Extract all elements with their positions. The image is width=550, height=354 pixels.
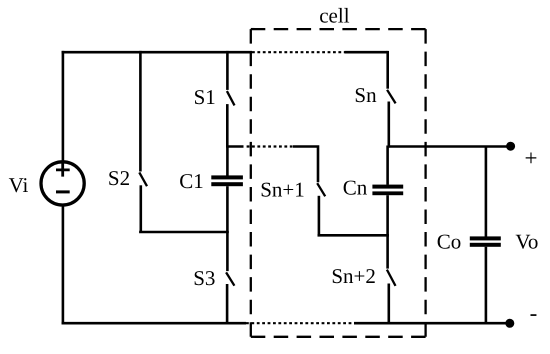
wire: top bus dotted continuation inside cell bbox=[252, 51, 346, 53]
voltage source Vi bbox=[41, 162, 84, 205]
wire: node bus dotted segment inside cell bbox=[247, 145, 294, 147]
wire: C1 bottom to S3 top lead bbox=[226, 231, 229, 271]
switch S2 bbox=[139, 51, 147, 232]
wire: bottom bus solid left part bbox=[62, 322, 246, 325]
label + (output polarity) bbox=[525, 146, 538, 171]
svg-text:Cn: Cn bbox=[343, 176, 368, 200]
svg-text:Vi: Vi bbox=[9, 173, 29, 197]
node: output plus terminal bbox=[506, 142, 515, 151]
wire: left rail lower segment (Vi bottom to bottom bus) bbox=[62, 205, 65, 324]
label S3 bbox=[193, 266, 215, 290]
switch S3 bbox=[226, 272, 234, 324]
cell boundary dashed box bbox=[251, 29, 426, 337]
svg-text:S3: S3 bbox=[193, 266, 215, 290]
svg-text:S2: S2 bbox=[108, 166, 130, 190]
label S1 bbox=[194, 85, 216, 109]
svg-text:-: - bbox=[530, 300, 538, 325]
wire: left rail upper segment (Vi top to top bus) bbox=[62, 51, 65, 162]
svg-text:cell: cell bbox=[319, 4, 349, 28]
label Vo bbox=[515, 229, 538, 253]
svg-text:+: + bbox=[525, 146, 538, 171]
switch Sn bbox=[387, 51, 396, 148]
svg-text:C1: C1 bbox=[179, 169, 204, 193]
label Sn+2 bbox=[331, 264, 376, 288]
switch Sn+2 bbox=[387, 270, 396, 325]
wire: mid-right bus (Sn+1 bottom to Cn branch) bbox=[318, 234, 389, 237]
label - (output polarity) bbox=[530, 300, 538, 325]
wire: mid-left bus (S2 bottom to C1 branch) bbox=[139, 231, 229, 234]
capacitor Co bbox=[470, 146, 501, 325]
label C1 bbox=[179, 169, 204, 193]
capacitor Cn bbox=[372, 146, 403, 237]
label Sn bbox=[354, 83, 377, 107]
label Cn bbox=[343, 176, 368, 200]
capacitor C1 bbox=[211, 146, 243, 234]
node: output minus terminal bbox=[505, 319, 514, 328]
svg-text:S1: S1 bbox=[194, 85, 216, 109]
wire: Cn bottom to Sn+2 top lead bbox=[386, 234, 389, 269]
label S2 bbox=[108, 166, 130, 190]
wire: bottom bus dotted segment inside cell bbox=[246, 322, 355, 324]
svg-text:Sn: Sn bbox=[354, 83, 377, 107]
wire: node bus from S1/C1 junction toward cell (solid nub) bbox=[227, 145, 243, 148]
svg-text:Co: Co bbox=[437, 229, 462, 253]
switch S1 bbox=[227, 51, 235, 148]
wire: top bus solid segment to Sn branch corner bbox=[345, 51, 388, 54]
label cell bbox=[319, 4, 349, 28]
label Co bbox=[437, 229, 462, 253]
wire: output bus from Sn bottom to + output node bbox=[388, 145, 510, 148]
wire: top bus from Vi positive rail to cell (solid part) bbox=[62, 51, 252, 54]
svg-text:Sn+2: Sn+2 bbox=[331, 264, 376, 288]
wire: node bus solid segment and corner down to Sn+1 bbox=[293, 145, 318, 182]
wire: bottom bus solid right part to output minus node bbox=[354, 322, 510, 325]
svg-text:Vo: Vo bbox=[515, 229, 538, 253]
label Sn+1 bbox=[260, 178, 305, 202]
svg-text:Sn+1: Sn+1 bbox=[260, 178, 305, 202]
switch Sn+1 bbox=[317, 183, 325, 235]
label Vi bbox=[9, 173, 29, 197]
